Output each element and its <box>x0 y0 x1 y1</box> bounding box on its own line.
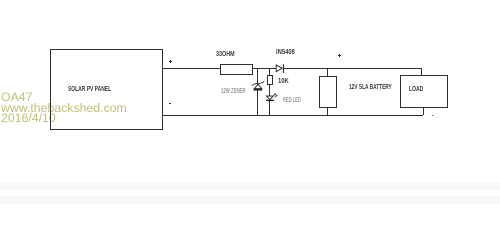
label 12W ZENER <box>221 87 245 95</box>
label SOLAR PV PANEL <box>68 85 111 93</box>
wire top segment diode to load corner <box>284 68 421 69</box>
stray dot <box>432 115 434 116</box>
LED D red <box>262 90 282 104</box>
watermark line 2016/4/10 <box>1 113 56 123</box>
load box <box>400 75 448 108</box>
zener diode ZD 12W <box>250 78 266 93</box>
faint scan band 1 <box>0 182 500 190</box>
faint scan band 2 <box>0 196 500 204</box>
plus sign at panel <box>169 61 172 62</box>
diode D1 IN5408 <box>272 61 288 75</box>
label 10K <box>278 77 289 85</box>
wire top segment panel to resistor <box>162 68 220 69</box>
label 12V SLA BATTERY <box>349 83 392 91</box>
resistor R 330HM body <box>220 64 253 75</box>
watermark line www.thebackshed.com <box>1 103 127 113</box>
battery stub bottom <box>327 107 328 115</box>
solar PV panel box <box>50 49 163 130</box>
battery B1 12V SLA body <box>319 76 337 108</box>
bottom wire <box>162 115 423 116</box>
resistor 10K body <box>267 75 273 85</box>
zener branch wire <box>257 68 258 116</box>
label 33OHM <box>216 50 235 58</box>
label LOAD <box>409 85 423 93</box>
10K LED branch wire <box>269 68 270 116</box>
label IN5408 <box>276 48 295 56</box>
watermark line OA47 <box>1 92 32 102</box>
wire resistor to diode <box>253 68 277 69</box>
wire rise to load bottom <box>423 107 424 115</box>
label RED LED <box>283 96 301 104</box>
plus sign at battery <box>338 55 342 56</box>
minus sign at panel <box>169 103 172 104</box>
wire drop to load <box>421 68 422 76</box>
battery stub top <box>327 68 328 76</box>
